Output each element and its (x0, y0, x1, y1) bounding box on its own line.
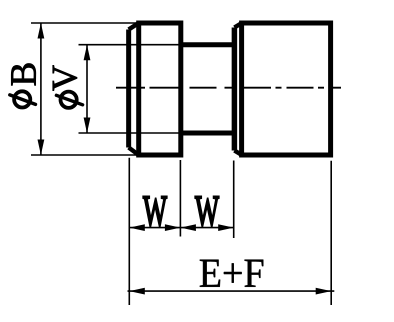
W middle right-pointing arrow (165, 224, 181, 231)
label oV: diameter slash (56, 95, 82, 105)
shaft top edge (181, 42, 235, 47)
cylinder front face and shaft end (232, 28, 238, 151)
dimension oB bottom arrow (38, 140, 45, 156)
E+F right extension line (330, 161, 332, 305)
dimension oV bottom extension line (79, 132, 182, 134)
dimension oB top arrow (38, 23, 45, 39)
cylinder top chamfer (234, 23, 241, 28)
flange front face (126, 30, 131, 148)
flange body outline (139, 23, 181, 155)
W left arrow (129, 224, 145, 231)
dimension oB line (40, 23, 42, 155)
label oB: diameter slash (10, 95, 36, 105)
dimension oB bottom extension line (31, 154, 139, 156)
cylinder bottom chamfer (234, 151, 241, 156)
dimension oB top extension line (31, 22, 139, 24)
label W second (195, 197, 219, 226)
label E+F (200, 260, 263, 287)
W right arrow (218, 224, 234, 231)
label oV: diameter circle (61, 92, 77, 108)
label oV: V letter (53, 65, 77, 90)
W middle extension line (179, 160, 181, 237)
W/E+F left extension line (128, 158, 130, 305)
E+F dimension line (128, 290, 335, 292)
dimension oV top arrow (84, 45, 91, 61)
dimension oV top extension line (79, 44, 182, 46)
E+F right arrow (316, 288, 332, 295)
cylinder body outline (242, 23, 331, 155)
W right extension line (233, 161, 235, 239)
W dimension line (129, 227, 233, 229)
dimension oV line (86, 45, 88, 133)
label W first (143, 197, 167, 226)
flange top chamfer (129, 23, 139, 30)
dimension oV bottom arrow (84, 118, 91, 134)
label oB: diameter circle (14, 91, 30, 107)
W middle left-pointing arrow (180, 224, 196, 231)
centerline (116, 87, 341, 89)
E+F left arrow (129, 288, 145, 295)
flange bottom chamfer (129, 148, 139, 156)
shaft bottom edge (181, 131, 235, 136)
label oB: B letter (11, 64, 35, 86)
